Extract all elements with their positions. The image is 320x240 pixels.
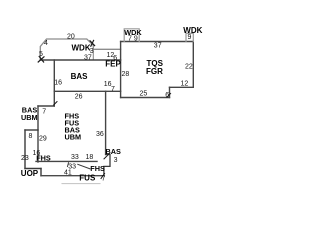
svg-text:BAS: BAS: [106, 147, 122, 156]
svg-text:12: 12: [181, 81, 189, 88]
bump left wall (23): [24, 130, 26, 169]
BAS bottom wall (26): [54, 90, 120, 92]
bump top edge: [25, 129, 38, 131]
right section bottom left (25): [121, 97, 170, 99]
right section right wall (22): [192, 42, 194, 88]
svg-text:6: 6: [165, 92, 169, 99]
rear wall (33 18): [36, 160, 97, 162]
svg-text:20: 20: [67, 34, 75, 41]
svg-text:29: 29: [39, 135, 47, 142]
svg-text:37: 37: [154, 42, 162, 49]
porch line left (41): [25, 168, 41, 170]
svg-text:33: 33: [71, 154, 79, 161]
svg-text:18: 18: [86, 154, 94, 161]
leader diagonal to FHS label: [78, 164, 90, 169]
svg-text:37: 37: [84, 54, 92, 61]
corner tick wdk-right: [90, 40, 95, 46]
svg-text:FUS: FUS: [79, 173, 96, 182]
svg-text:8: 8: [29, 133, 33, 140]
porch step down: [40, 169, 42, 176]
svg-text:22: 22: [185, 64, 193, 71]
svg-text:4: 4: [44, 40, 48, 47]
svg-text:3: 3: [114, 157, 118, 164]
wood deck WDK top-left polygon: [40, 39, 93, 59]
corner tick step6: [167, 93, 171, 97]
svg-text:UOP: UOP: [21, 169, 39, 178]
corner tick fus7: [101, 174, 105, 179]
svg-text:9: 9: [188, 34, 192, 41]
WDK stub 2 box: [186, 33, 193, 41]
BAS left wall (16): [53, 60, 55, 106]
left wall lower (29): [37, 106, 39, 162]
corner tick front-left: [38, 57, 44, 63]
right section top wall (37): [121, 41, 194, 43]
svg-text:WDK: WDK: [183, 26, 202, 35]
step at BAS/UBM bump (7): [38, 105, 54, 107]
WDK stub 1 box: [124, 29, 139, 42]
leader tick mini33: [68, 163, 69, 167]
svg-text:6: 6: [113, 55, 117, 62]
porch FEP left edge: [92, 49, 94, 59]
main front wall (37): [40, 59, 120, 61]
FUS bump bottom faint: [62, 183, 100, 185]
svg-text:UBM: UBM: [65, 133, 82, 142]
svg-text:WDK: WDK: [72, 44, 91, 53]
svg-text:7 9: 7 9: [128, 35, 138, 42]
svg-text:7: 7: [42, 108, 46, 115]
svg-text:5: 5: [39, 51, 43, 58]
corner tick bump7: [54, 102, 57, 105]
bottom porch line: [41, 175, 104, 177]
svg-text:26: 26: [75, 94, 83, 101]
right section bottom right (12): [170, 86, 194, 88]
svg-text:FHS: FHS: [90, 164, 105, 173]
svg-text:BAS: BAS: [71, 72, 89, 81]
svg-text:23: 23: [21, 155, 29, 162]
svg-text:UBM: UBM: [21, 113, 38, 122]
svg-text:16: 16: [54, 80, 62, 87]
svg-text:7: 7: [102, 176, 106, 183]
svg-text:7: 7: [111, 86, 115, 93]
svg-text:36: 36: [96, 131, 104, 138]
svg-text:41: 41: [64, 169, 72, 176]
corner tick bas3: [104, 154, 109, 159]
svg-text:25: 25: [140, 90, 148, 97]
svg-text:28: 28: [122, 71, 130, 78]
step (6): [169, 87, 171, 97]
svg-text:FHS: FHS: [36, 154, 51, 163]
porch FEP top edge: [94, 48, 121, 50]
central block right wall (36): [105, 91, 107, 154]
BAS small bump right (3): [104, 155, 110, 176]
FEP right wall (28): [120, 42, 122, 98]
svg-text:FGR: FGR: [146, 67, 163, 76]
